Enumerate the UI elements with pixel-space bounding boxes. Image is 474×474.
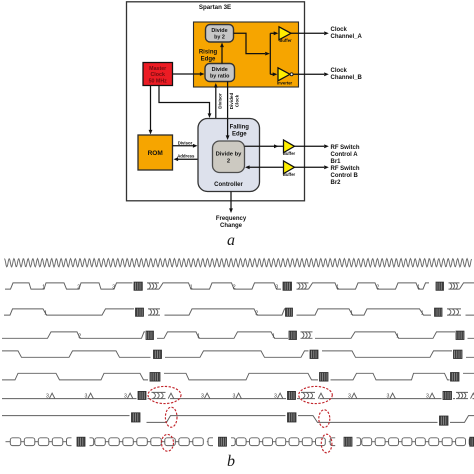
svg-text:Frequency: Frequency (216, 216, 247, 222)
svg-text:Divide: Divide (211, 28, 227, 34)
svg-text:Rising: Rising (199, 49, 218, 55)
svg-text:1: 1 (350, 310, 353, 316)
wire master clock to controller (159, 86, 210, 114)
wire divided clock into divide-by-2 (inside controller) (227, 119, 229, 136)
wire waveform row7 rf switch control pulses (2, 398, 474, 400)
wire waveform row9 data bus values (6, 441, 11, 443)
svg-text:Channel_B: Channel_B (331, 75, 363, 81)
svg-text:3: 3 (112, 284, 115, 290)
svg-text:Change: Change (220, 223, 243, 229)
svg-text:Controller: Controller (214, 182, 243, 188)
svg-text:3: 3 (387, 394, 390, 400)
wire divisor controller to divide-by-ratio (215, 88, 217, 119)
svg-text:Clock: Clock (331, 27, 348, 33)
FPGA outer box Spartan 3E (127, 2, 305, 201)
memory ROM (138, 135, 173, 170)
wire divide-by-2 output to buffer/inverter junction (234, 33, 266, 53)
svg-text:1: 1 (197, 334, 200, 340)
wire ROM divisor to controller (173, 145, 194, 147)
svg-text:2: 2 (376, 284, 379, 290)
svg-text:Master: Master (149, 66, 166, 72)
wire waveform row1 master clock 50MHz (5, 259, 472, 267)
svg-text:1: 1 (336, 284, 339, 290)
svg-text:2: 2 (77, 284, 80, 290)
wire divide-by-2 to RF buffer A (245, 145, 284, 147)
svg-text:3: 3 (426, 394, 429, 400)
svg-text:Edge: Edge (201, 56, 216, 62)
wire controller to frequency change (230, 192, 232, 209)
svg-text:1: 1 (44, 310, 47, 316)
svg-text:1: 1 (42, 284, 45, 290)
wire junction to inverter (270, 73, 273, 75)
wire master clock to ROM (150, 86, 152, 131)
wire buffer to Clock Channel_A (291, 32, 324, 34)
svg-text:Divisor: Divisor (218, 93, 223, 109)
svg-text:Control B: Control B (331, 173, 359, 179)
buffer U_buf2 (284, 140, 295, 153)
wire divided clock divide-by-ratio to controller (227, 82, 229, 136)
wire inverter to Clock Channel_B (293, 73, 324, 75)
divider block U_div2 Divide by 2 (206, 25, 234, 43)
svg-text:3: 3 (85, 394, 88, 400)
svg-text:Divided: Divided (229, 93, 234, 110)
svg-text:2: 2 (78, 334, 81, 340)
svg-text:3: 3 (275, 284, 278, 290)
svg-text:Control A: Control A (331, 152, 359, 158)
svg-text:by ratio: by ratio (210, 74, 230, 80)
ellipse highlight row7 left (148, 386, 181, 403)
rising edge divider block (orange container) (194, 22, 299, 87)
wire controller address to ROM (178, 158, 199, 160)
svg-text:RF Switch: RF Switch (331, 145, 360, 151)
inverter U_inv1 (278, 68, 290, 81)
svg-text:Clock: Clock (234, 94, 239, 107)
svg-text:1: 1 (421, 310, 424, 316)
wire master clock to divide-by-ratio (173, 73, 201, 75)
svg-text:3: 3 (348, 394, 351, 400)
wire RF buffer B output (295, 166, 325, 168)
svg-text:Spartan 3E: Spartan 3E (199, 4, 231, 11)
svg-text:a: a (227, 232, 235, 249)
wire waveform row5 clock channel B (2, 351, 474, 357)
svg-text:1: 1 (417, 284, 420, 290)
svg-text:1: 1 (396, 334, 399, 340)
svg-text:1: 1 (190, 284, 193, 290)
svg-text:Edge: Edge (232, 131, 247, 137)
svg-text:3: 3 (124, 394, 127, 400)
wire RF control B feedback into divide-by-2 (249, 166, 283, 168)
svg-text:Channel_A: Channel_A (331, 34, 363, 40)
wire junction vertical (269, 33, 271, 74)
svg-text:RF Switch: RF Switch (331, 166, 360, 172)
wire waveform row4 clock channel A (2, 332, 474, 338)
svg-text:b: b (227, 453, 235, 470)
ellipse highlight row9 left (162, 434, 174, 451)
wire waveform row8 switch state (2, 416, 474, 423)
svg-text:2: 2 (255, 310, 258, 316)
svg-text:Br2: Br2 (331, 180, 342, 186)
svg-text:Clock: Clock (331, 68, 348, 74)
svg-text:2: 2 (233, 284, 236, 290)
svg-text:2: 2 (227, 158, 230, 164)
svg-text:Divide by: Divide by (216, 151, 243, 157)
ellipse highlight row8 left (165, 407, 177, 427)
ellipse highlight row8 right (319, 410, 330, 428)
ellipse highlight row9 right (321, 434, 332, 453)
divider block U_divratio Divide by ratio (205, 64, 235, 82)
svg-text:Buffer: Buffer (279, 38, 292, 43)
svg-text:Divisor: Divisor (178, 140, 193, 145)
svg-text:3: 3 (46, 394, 49, 400)
svg-text:3: 3 (233, 394, 236, 400)
svg-text:Buffer: Buffer (283, 151, 296, 156)
buffer U_buf3 (284, 161, 295, 174)
divider block U_div2b Divide by 2 (controller) (213, 141, 245, 173)
svg-text:3: 3 (274, 394, 277, 400)
controller block (rounded) (198, 119, 260, 192)
svg-text:Falling: Falling (230, 124, 250, 130)
svg-text:Clock: Clock (150, 72, 164, 78)
wire waveform row6 rf switch control A (2, 373, 474, 380)
svg-text:50 MHz: 50 MHz (149, 79, 168, 85)
svg-text:Buffer: Buffer (283, 172, 296, 177)
wire waveform row3 divided clock (4, 309, 474, 315)
svg-text:1: 1 (272, 334, 275, 340)
wire junction to buffer (270, 32, 274, 34)
ellipse highlight row7 right (299, 386, 333, 403)
wire divide-by-ratio to divide-by-2 (221, 47, 223, 64)
svg-text:Divide: Divide (212, 67, 228, 73)
oscillator U_mclk Master Clock 50 MHz (143, 63, 173, 86)
svg-text:by 2: by 2 (214, 35, 225, 41)
buffer U_buf1 (279, 27, 291, 40)
svg-text:3: 3 (201, 394, 204, 400)
svg-text:ROM: ROM (148, 150, 163, 157)
svg-text:Address: Address (177, 154, 195, 159)
wire RF buffer A output (295, 145, 325, 147)
wire waveform row2 half-rate clock (5, 283, 474, 289)
svg-text:Br1: Br1 (331, 159, 342, 165)
svg-text:Inverter: Inverter (277, 81, 293, 86)
